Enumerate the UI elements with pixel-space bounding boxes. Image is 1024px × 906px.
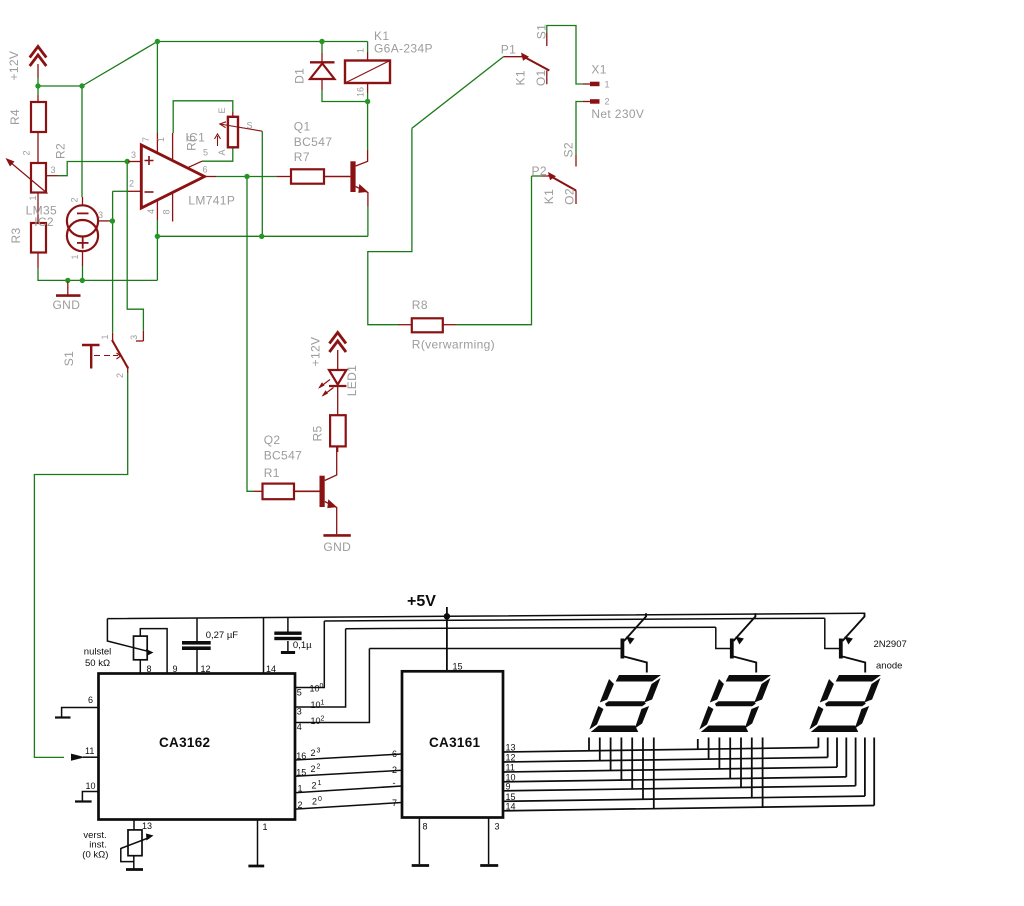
svg-text:15: 15	[506, 792, 516, 802]
svg-text:+12V: +12V	[309, 337, 323, 367]
svg-text:2: 2	[312, 781, 317, 791]
svg-text:(0 kΩ): (0 kΩ)	[82, 850, 108, 861]
svg-text:9: 9	[173, 664, 178, 674]
svg-text:12: 12	[201, 664, 211, 674]
svg-text:4: 4	[297, 722, 302, 732]
svg-text:16: 16	[296, 751, 306, 761]
svg-text:2: 2	[311, 748, 316, 758]
svg-text:LM741P: LM741P	[188, 193, 235, 207]
svg-text:2: 2	[69, 197, 79, 202]
svg-text:15: 15	[296, 768, 306, 778]
svg-text:GND: GND	[323, 540, 351, 554]
svg-text:0: 0	[320, 683, 324, 690]
svg-text:A: A	[217, 149, 227, 155]
svg-text:1: 1	[100, 334, 110, 339]
svg-text:2: 2	[115, 373, 125, 378]
svg-text:10: 10	[311, 700, 321, 710]
svg-text:10: 10	[311, 716, 321, 726]
svg-text:R6: R6	[184, 135, 198, 151]
svg-text:3: 3	[317, 748, 321, 755]
svg-text:10: 10	[310, 684, 320, 694]
svg-text:K1: K1	[542, 189, 556, 204]
svg-text:P1: P1	[501, 43, 516, 57]
svg-text:1: 1	[605, 80, 610, 90]
svg-text:X1: X1	[591, 63, 606, 77]
svg-text:2: 2	[312, 797, 317, 807]
svg-text:5: 5	[203, 148, 208, 158]
svg-text:4: 4	[146, 209, 156, 214]
svg-text:5: 5	[297, 688, 302, 698]
svg-text:3: 3	[129, 335, 139, 340]
svg-text:2: 2	[392, 765, 397, 775]
svg-text:Q1: Q1	[294, 120, 311, 134]
svg-text:GND: GND	[53, 298, 81, 312]
svg-text:1: 1	[321, 700, 325, 707]
svg-text:Q2: Q2	[264, 433, 281, 447]
svg-text:1: 1	[263, 822, 268, 832]
svg-text:R3: R3	[9, 227, 23, 243]
svg-text:R8: R8	[412, 298, 428, 312]
svg-text:0,1µ: 0,1µ	[293, 640, 312, 651]
svg-text:1: 1	[156, 137, 166, 142]
svg-text:3: 3	[98, 210, 103, 220]
svg-text:7: 7	[392, 798, 397, 808]
svg-text:12: 12	[506, 753, 516, 763]
svg-text:3: 3	[495, 822, 500, 832]
svg-text:8: 8	[423, 822, 428, 832]
svg-text:BC547: BC547	[294, 135, 332, 149]
svg-text:+12V: +12V	[7, 51, 21, 81]
svg-text:CA3162: CA3162	[159, 735, 210, 750]
svg-text:anode: anode	[876, 661, 902, 672]
svg-text:2N2907: 2N2907	[874, 639, 907, 650]
svg-text:0,27 µF: 0,27 µF	[206, 630, 239, 641]
svg-text:LED1: LED1	[345, 365, 359, 396]
svg-text:2: 2	[298, 800, 303, 810]
svg-text:Net 230V: Net 230V	[591, 107, 644, 121]
svg-text:8: 8	[147, 664, 152, 674]
svg-text:3: 3	[297, 707, 302, 717]
svg-text:R4: R4	[8, 109, 22, 125]
svg-text:16: 16	[355, 87, 365, 97]
svg-text:S: S	[247, 121, 253, 131]
svg-text:BC547: BC547	[264, 449, 302, 463]
svg-text:2: 2	[21, 150, 31, 155]
svg-text:CA3161: CA3161	[429, 735, 481, 750]
svg-text:+5V: +5V	[407, 593, 436, 610]
svg-text:0: 0	[318, 796, 322, 803]
svg-text:IC2: IC2	[34, 215, 54, 229]
svg-text:6: 6	[392, 749, 397, 759]
svg-text:13: 13	[142, 821, 152, 831]
svg-text:3: 3	[131, 150, 136, 160]
svg-text:1: 1	[28, 195, 38, 200]
svg-text:2: 2	[605, 97, 610, 107]
svg-text:15: 15	[453, 662, 463, 672]
svg-text:P2: P2	[532, 164, 547, 178]
svg-text:2: 2	[317, 764, 321, 771]
svg-text:13: 13	[506, 743, 516, 753]
svg-text:1: 1	[355, 48, 365, 53]
svg-text:R2: R2	[54, 143, 68, 159]
svg-text:3: 3	[51, 165, 56, 175]
svg-text:R1: R1	[264, 466, 280, 480]
svg-text:6: 6	[203, 165, 208, 175]
svg-text:-: -	[393, 778, 396, 788]
svg-text:R7: R7	[294, 150, 310, 164]
svg-text:D1: D1	[293, 68, 307, 84]
svg-text:50 kΩ: 50 kΩ	[85, 658, 110, 669]
svg-text:1: 1	[318, 780, 322, 787]
svg-text:E: E	[217, 107, 227, 113]
svg-text:14: 14	[506, 801, 516, 811]
svg-text:nulstel: nulstel	[84, 647, 111, 658]
svg-text:S1: S1	[62, 351, 76, 366]
svg-text:9: 9	[506, 781, 511, 791]
svg-text:7: 7	[141, 137, 151, 142]
svg-text:K1: K1	[514, 70, 528, 85]
svg-text:S2: S2	[562, 142, 576, 157]
svg-text:11: 11	[85, 746, 94, 756]
svg-text:1: 1	[70, 254, 80, 259]
svg-text:6: 6	[88, 695, 93, 705]
svg-text:O2: O2	[563, 188, 577, 205]
svg-text:8: 8	[161, 209, 171, 214]
svg-text:1: 1	[298, 784, 303, 794]
svg-text:2: 2	[129, 179, 134, 189]
svg-text:11: 11	[506, 763, 515, 773]
svg-text:R(verwarming): R(verwarming)	[412, 338, 495, 352]
svg-text:R5: R5	[311, 425, 325, 441]
svg-text:10: 10	[86, 781, 96, 791]
svg-text:2: 2	[321, 716, 325, 723]
svg-text:S1: S1	[535, 24, 549, 39]
svg-text:14: 14	[266, 664, 276, 674]
svg-text:G6A-234P: G6A-234P	[374, 42, 433, 56]
svg-text:2: 2	[311, 764, 316, 774]
svg-text:O1: O1	[534, 69, 548, 86]
